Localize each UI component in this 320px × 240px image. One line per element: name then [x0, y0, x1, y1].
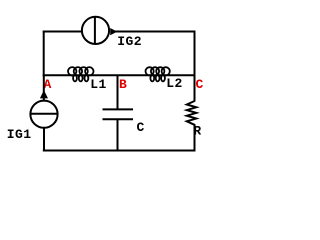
wire right vertical upper: [194, 31, 196, 102]
svg-text:C: C: [196, 77, 204, 92]
wire IG1 to bottom: [43, 127, 45, 151]
arrowhead IG2: [110, 28, 117, 35]
wire left vertical: [43, 31, 45, 77]
current source IG2: [82, 17, 109, 44]
inductor L2: [146, 67, 170, 81]
wire resistor to bottom: [194, 124, 196, 152]
svg-text:IG2: IG2: [117, 34, 142, 49]
wire top-left segment: [43, 31, 82, 33]
wire top-right segment: [115, 31, 196, 33]
svg-text:C: C: [137, 120, 145, 135]
wire middle horizontal: [43, 74, 196, 76]
arrowhead IG1: [40, 90, 48, 98]
svg-text:L2: L2: [166, 76, 183, 91]
svg-text:B: B: [119, 77, 127, 92]
wire node A to IG1: [43, 75, 45, 101]
svg-text:L1: L1: [90, 77, 107, 92]
wire capacitor to bottom: [117, 119, 119, 151]
wire node B to capacitor: [117, 75, 119, 110]
capacitor C: [103, 108, 134, 110]
wire bottom horizontal: [43, 150, 196, 152]
current source IG1: [30, 101, 57, 128]
resistor R: [187, 101, 197, 125]
svg-text:IG1: IG1: [7, 127, 32, 142]
inductor L1: [68, 67, 94, 81]
